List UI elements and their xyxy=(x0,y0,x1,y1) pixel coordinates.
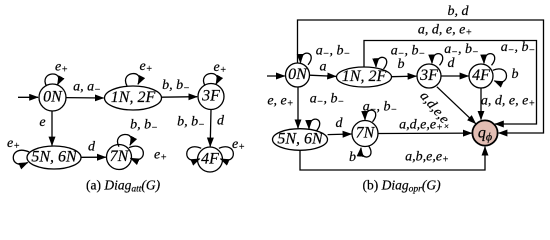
svg-text:b: b xyxy=(398,57,405,72)
svg-text:5N, 6N: 5N, 6N xyxy=(31,149,78,166)
svg-text:4F: 4F xyxy=(201,151,219,168)
svg-text:(b) Diagopr(G): (b) Diagopr(G) xyxy=(363,178,442,195)
svg-text:7N: 7N xyxy=(356,125,376,142)
svg-text:5N, 6N: 5N, 6N xyxy=(277,131,324,148)
svg-text:b, d: b, d xyxy=(448,4,470,19)
svg-text:0N: 0N xyxy=(43,89,63,106)
svg-text:d: d xyxy=(336,116,344,131)
svg-text:b: b xyxy=(512,67,519,82)
svg-text:d: d xyxy=(217,114,225,129)
svg-text:0N: 0N xyxy=(288,66,308,83)
svg-text:a, d, e, e+: a, d, e, e+ xyxy=(418,23,472,39)
svg-text:4F: 4F xyxy=(472,67,490,84)
svg-text:1N, 2F: 1N, 2F xyxy=(342,68,387,85)
svg-text:d: d xyxy=(88,140,96,155)
svg-text:3F: 3F xyxy=(419,67,438,84)
svg-text:(a) Diagatt(G): (a) Diagatt(G) xyxy=(86,178,161,195)
svg-text:a, d, e, e+: a, d, e, e+ xyxy=(481,94,535,110)
svg-text:3F: 3F xyxy=(201,88,220,105)
svg-text:7N: 7N xyxy=(110,148,130,165)
svg-text:d: d xyxy=(448,56,456,71)
svg-text:e: e xyxy=(39,115,45,130)
svg-text:a: a xyxy=(320,60,327,75)
svg-text:1N, 2F: 1N, 2F xyxy=(111,89,156,106)
svg-text:b: b xyxy=(349,150,356,165)
